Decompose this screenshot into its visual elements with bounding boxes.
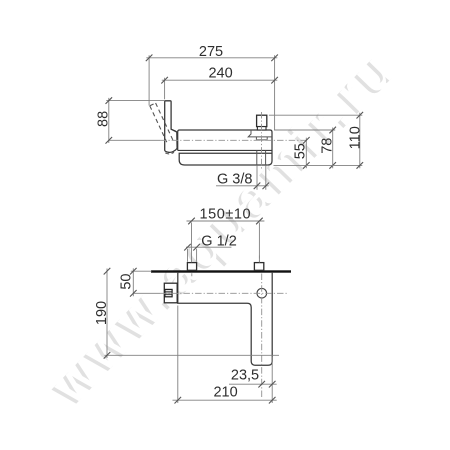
faucet body front view (L-shape)	[178, 273, 272, 366]
stud left G1/2	[187, 263, 196, 271]
svg-text:150±10: 150±10	[200, 206, 252, 222]
dimension 210	[173, 306, 277, 404]
svg-text:210: 210	[213, 385, 237, 401]
svg-text:G 1/2: G 1/2	[201, 234, 236, 250]
dimension 275	[146, 55, 277, 130]
watermark	[38, 38, 409, 418]
faucet body (side view)	[178, 130, 272, 165]
dimension 78	[274, 128, 335, 169]
svg-text:275: 275	[199, 44, 223, 60]
centerline horizontal (side view)	[109, 139, 160, 141]
wall connector flange	[248, 130, 272, 137]
thread neck	[257, 127, 266, 130]
lever travel arc (dashed)	[165, 152, 174, 154]
dimension 23,5	[229, 357, 277, 388]
handle end view	[164, 283, 177, 303]
connector seat	[256, 137, 267, 140]
lever handle (side view, upright)	[165, 101, 177, 153]
label G 1/2 with leader	[186, 247, 231, 262]
centerline vertical (connector)	[261, 112, 263, 170]
svg-text:50: 50	[119, 274, 135, 290]
dimension 240	[162, 78, 277, 100]
screw circle	[257, 288, 267, 298]
stud centerline stubs	[192, 256, 260, 277]
dimension 50	[131, 268, 152, 296]
tailpiece	[257, 150, 266, 165]
svg-text:88: 88	[96, 111, 112, 127]
svg-text:240: 240	[208, 66, 232, 82]
lever alternate position (dashed)	[150, 103, 173, 142]
dimension 190	[105, 269, 280, 359]
centerline vertical (spout column)	[261, 274, 263, 399]
union nut G3/8	[257, 115, 267, 126]
svg-text:G 3/8: G 3/8	[217, 172, 252, 188]
dimension 110	[269, 113, 362, 169]
dimension 88	[106, 98, 164, 143]
svg-text:110: 110	[347, 126, 363, 149]
centerline horizontal (front view)	[133, 292, 160, 294]
stud right G1/2	[254, 263, 263, 271]
spout (side view)	[179, 153, 272, 165]
svg-text:78: 78	[319, 138, 335, 154]
wall plate	[151, 270, 291, 272]
handle knob stripes	[165, 289, 172, 296]
dimension 55	[305, 138, 307, 169]
dimension 150±10	[187, 221, 265, 262]
svg-text:190: 190	[94, 301, 110, 325]
svg-text:23,5: 23,5	[231, 367, 259, 383]
svg-text:55: 55	[292, 143, 308, 159]
label G 3/8 with leader	[216, 166, 269, 190]
